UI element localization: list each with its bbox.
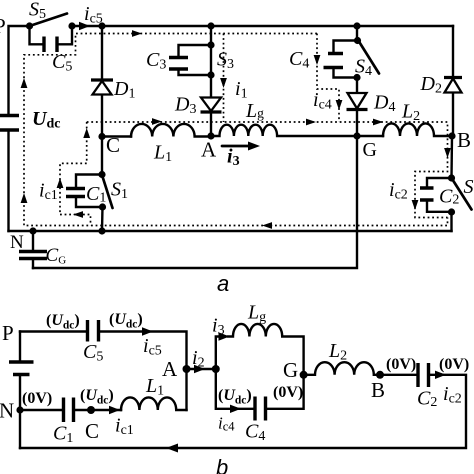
svg-text:(0V): (0V) xyxy=(439,356,469,373)
dotted path arrow right on top dotted rail xyxy=(132,30,142,37)
return current arrow (left) xyxy=(166,444,178,453)
wire: N rail xyxy=(9,230,452,232)
svg-text:b: b xyxy=(216,455,228,474)
node: top rail junction at D1 column xyxy=(98,22,105,29)
svg-text:A: A xyxy=(201,138,217,162)
grid current arrow i3 xyxy=(222,142,260,151)
dotted current path: C1 loop (i_c1) xyxy=(60,122,91,226)
capacitor C1 xyxy=(64,398,74,423)
capacitor C2 xyxy=(418,363,429,387)
node G dot xyxy=(300,371,308,379)
node: top rail junction at S3 column xyxy=(207,22,214,29)
current arrow i_c5 xyxy=(142,327,153,335)
svg-text:G: G xyxy=(363,139,377,161)
wire: C2 to right rail and bottom return to N xyxy=(20,375,466,448)
wire: main row C to L1 xyxy=(102,135,131,137)
dotted current path: i1 through S3 xyxy=(223,34,225,123)
node: N rail junction at CG xyxy=(29,227,36,234)
svg-text:(0V): (0V) xyxy=(273,384,303,401)
capacitor CG xyxy=(19,231,47,268)
wire: left rail Udc to N xyxy=(7,130,9,231)
voltage source Udc plates xyxy=(0,116,19,131)
dotted path arrow down below B xyxy=(444,148,451,158)
switch S4 (open, blade down-right) xyxy=(353,37,379,81)
dotted path arrow up at x=24 upper xyxy=(21,78,28,88)
inductor Lg xyxy=(211,125,357,136)
wire: junction up to Lg branch xyxy=(216,337,218,370)
diode D2 (pointing up) xyxy=(444,78,462,93)
dotted path arrow right over L2 xyxy=(373,119,383,126)
svg-text:(Udc): (Udc) xyxy=(80,387,114,407)
current arrow i_c2 xyxy=(435,371,446,379)
capacitor C3 (parallel with S3) xyxy=(169,45,211,75)
switch S (open, blade down-right) xyxy=(448,174,472,215)
svg-text:A: A xyxy=(162,357,178,381)
wire: S4 column to D4 xyxy=(356,78,358,137)
junction dot at Lg/C4 branch xyxy=(212,365,220,373)
svg-text:P: P xyxy=(0,14,6,38)
switch S1 (open, blade down-right) xyxy=(98,171,112,211)
node: N rail junction at S1 column xyxy=(98,227,105,234)
dotted path arrow down (i1) xyxy=(220,78,227,88)
capacitor C5 (parallel with S5) xyxy=(30,26,73,52)
inductor L2 xyxy=(304,362,380,375)
current arrow i_c1 xyxy=(109,406,120,414)
svg-text:C: C xyxy=(85,419,99,443)
switch S5 (open, blade up-right) xyxy=(26,14,76,30)
dotted path arrow up at x=24 lower xyxy=(21,193,28,203)
svg-text:N: N xyxy=(0,399,14,423)
node B dot xyxy=(376,371,384,379)
svg-text:G: G xyxy=(283,358,298,382)
svg-text:(Udc): (Udc) xyxy=(218,387,252,407)
svg-text:(Udc): (Udc) xyxy=(46,312,80,332)
node G dot xyxy=(353,132,360,139)
wire: L1 up to A xyxy=(185,369,187,410)
inductor L1 xyxy=(131,124,211,137)
diode D1 (pointing up) xyxy=(91,80,113,95)
wire: S1 bottom to N rail xyxy=(101,207,104,231)
capacitor C2 (parallel with S) xyxy=(420,178,452,212)
dotted path arrow down (i_c2) xyxy=(412,200,419,210)
wire: D1 column xyxy=(101,26,103,137)
dotted path arrow right over L1 xyxy=(152,118,162,125)
node C dot xyxy=(87,406,95,414)
source plates xyxy=(9,362,34,375)
wire: node C down to switch S1 xyxy=(101,137,103,175)
svg-text:B: B xyxy=(457,128,471,152)
current arrow i_c4 xyxy=(230,405,241,413)
inductor L1 xyxy=(121,397,187,410)
node C dot xyxy=(98,133,105,140)
wire: P to switch S5 left terminal, and left rail down to Udc xyxy=(9,26,30,116)
switch S3 terminals xyxy=(207,41,214,48)
dotted current path: C5 loop top (i_c5) xyxy=(24,34,448,226)
wire: C1 to node C and L1 xyxy=(76,409,122,411)
dotted path arrow down (i_c4 upper) xyxy=(314,55,321,65)
dotted current path: main row y=122 and C2 loop xyxy=(87,122,448,218)
svg-text:S: S xyxy=(464,176,474,198)
dotted current path: i_c4 through C4 xyxy=(317,34,339,123)
wire: B down to switch S xyxy=(450,136,453,178)
wire: junction down to C4 branch xyxy=(216,369,253,409)
diode D4 (pointing down) xyxy=(347,93,368,110)
wire: B to C2 xyxy=(380,374,416,376)
capacitor C4 (parallel with S4) xyxy=(324,41,358,78)
dotted path arrow down (i_c4 lower) xyxy=(336,100,343,110)
node A dot xyxy=(207,132,214,139)
wire: S3 column (switch S3 closed) xyxy=(210,26,212,136)
node A dot xyxy=(183,365,191,373)
capacitor C4 xyxy=(255,397,266,421)
current arrow i3 xyxy=(219,332,230,340)
wire: right rail with D2 xyxy=(452,26,454,136)
wire: S4 column upper stub xyxy=(356,26,358,40)
node: top rail junction at S4 column xyxy=(353,22,360,29)
node B dot xyxy=(448,132,455,139)
wire: P row to C5 xyxy=(20,330,86,332)
dotted path arrow left on return rail xyxy=(262,222,272,229)
capacitor C5 xyxy=(88,320,99,342)
current arrow i2 xyxy=(194,365,205,373)
dotted path arrow right before D4 column xyxy=(306,119,316,126)
capacitor C1 (parallel with S1) xyxy=(66,175,103,208)
wire: C5 to A column xyxy=(101,332,187,370)
wire: C2 bottom to N rail xyxy=(450,212,452,231)
wire: C4 to G column xyxy=(268,375,304,409)
svg-text:B: B xyxy=(371,378,385,402)
diode D3 (pointing down) xyxy=(201,98,222,113)
dotted path arrow up (i_c1 left leg) xyxy=(57,178,64,188)
svg-text:(0V): (0V) xyxy=(386,356,416,373)
inductor L2 xyxy=(383,123,452,136)
wire: A to i3 junction xyxy=(187,368,216,370)
wire: N row to C1 xyxy=(20,409,62,411)
dotted path arrow up (i_c1 right leg) xyxy=(83,128,90,138)
svg-text:(Udc): (Udc) xyxy=(109,311,143,331)
node N dot xyxy=(16,406,23,413)
wire: ground return CG to G column xyxy=(33,136,357,268)
svg-text:a: a xyxy=(217,271,229,296)
current arrow i_c5 on top rail xyxy=(79,22,90,30)
svg-text:(0V): (0V) xyxy=(22,390,52,407)
inductor Lg xyxy=(228,324,304,375)
wire: top rail from S5 right to right corner xyxy=(72,25,453,27)
dotted path arrow left (i_c1 bottom) xyxy=(73,211,83,218)
source column: P down to N xyxy=(19,332,21,449)
wire: G to L2 xyxy=(357,135,383,137)
svg-text:P: P xyxy=(2,321,14,345)
